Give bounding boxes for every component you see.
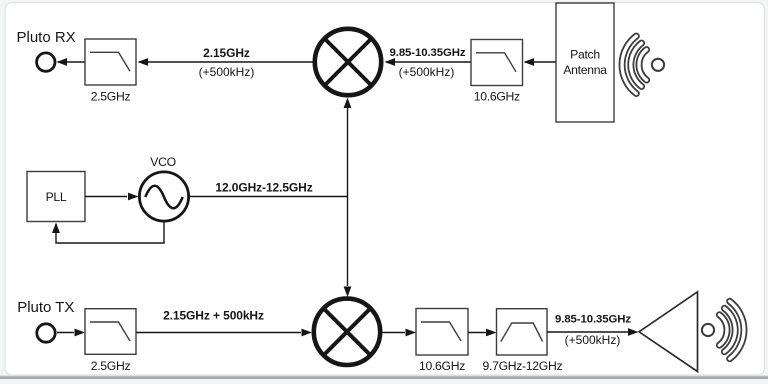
arrowhead into amplifier <box>628 328 639 336</box>
wire mixer M2 to filter F4 <box>382 332 405 334</box>
TX signal waves icon <box>702 301 744 358</box>
svg-text:Antenna: Antenna <box>563 63 607 77</box>
svg-text:Patch: Patch <box>570 48 600 62</box>
wire PLL to VCO <box>85 196 127 198</box>
svg-text:10.6GHz: 10.6GHz <box>419 359 465 373</box>
svg-text:2.5GHz: 2.5GHz <box>91 359 131 373</box>
svg-text:Pluto RX: Pluto RX <box>17 29 76 46</box>
svg-text:10.6GHz: 10.6GHz <box>474 90 520 104</box>
svg-text:VCO: VCO <box>150 155 176 169</box>
wire filter F2 to mixer M1 <box>386 61 471 63</box>
svg-text:2.15GHz + 500kHz: 2.15GHz + 500kHz <box>163 309 264 323</box>
RX signal waves icon <box>622 36 664 93</box>
wire filter F3 to mixer M2 <box>136 332 301 334</box>
wire mixer1 to filter F1 <box>139 61 313 63</box>
svg-text:(+500kHz): (+500kHz) <box>399 65 455 79</box>
patch antenna box <box>556 3 614 122</box>
wire patch antenna to filter F2 <box>525 61 556 63</box>
svg-text:9.7GHz-12GHz: 9.7GHz-12GHz <box>483 359 563 373</box>
connector circle Pluto TX <box>37 324 55 342</box>
wire filter F5 to amplifier <box>547 331 628 333</box>
mixer M1 <box>315 29 381 95</box>
LO wire up to mixer M1 <box>347 108 349 197</box>
oscillator VCO circle <box>139 172 188 221</box>
filter F3 low-pass box 2.5GHz <box>85 309 136 355</box>
PLL box <box>27 172 85 222</box>
arrowhead into filter F4 <box>406 329 417 337</box>
svg-text:(+500kHz): (+500kHz) <box>565 333 621 347</box>
filter F4 low-pass box 10.6GHz <box>416 309 468 356</box>
arrowhead into filter F2 <box>524 58 535 66</box>
arrowhead into filter F3 <box>75 329 86 337</box>
svg-text:2.5GHz: 2.5GHz <box>91 90 131 104</box>
wire filter F4 to filter F5 <box>468 332 486 334</box>
svg-text:9.85-10.35GHz: 9.85-10.35GHz <box>390 47 466 59</box>
arrowhead into filter F5 <box>486 329 497 337</box>
filter F1 low-pass box <box>85 39 136 85</box>
wire VCO to LO junction <box>189 196 348 198</box>
arrowhead down into mixer M2 <box>344 287 352 298</box>
arrowhead up into mixer M1 <box>344 98 352 109</box>
feedback wire VCO to PLL <box>56 221 164 243</box>
svg-text:Pluto TX: Pluto TX <box>17 299 74 316</box>
mixer M2 <box>314 299 380 365</box>
connector circle Pluto RX <box>37 53 55 71</box>
amplifier triangle <box>639 292 698 372</box>
svg-text:PLL: PLL <box>46 190 67 204</box>
arrowhead into filter F1 <box>138 58 149 66</box>
filter F5 band-pass box 9.7GHz-12GHz <box>497 309 548 355</box>
svg-text:9.85-10.35GHz: 9.85-10.35GHz <box>555 313 631 325</box>
arrowhead into PLL bottom <box>52 223 60 234</box>
wire Pluto TX to filter F3 <box>57 332 74 334</box>
arrowhead into Pluto RX circle <box>57 58 68 66</box>
wire filter F1 to Pluto RX <box>58 61 85 63</box>
arrowhead into mixer M2 <box>302 329 313 337</box>
bottom strip <box>0 375 768 377</box>
svg-text:2.15GHz: 2.15GHz <box>203 46 250 60</box>
svg-text:(+500kHz): (+500kHz) <box>199 65 255 79</box>
svg-text:12.0GHz-12.5GHz: 12.0GHz-12.5GHz <box>215 181 312 195</box>
LO wire down to mixer M2 <box>347 197 349 287</box>
filter F2 low-pass box 10.6GHz <box>471 40 523 86</box>
arrowhead into VCO <box>128 193 139 201</box>
arrowhead into mixer M1 right <box>385 58 396 66</box>
sine wave <box>145 186 182 209</box>
